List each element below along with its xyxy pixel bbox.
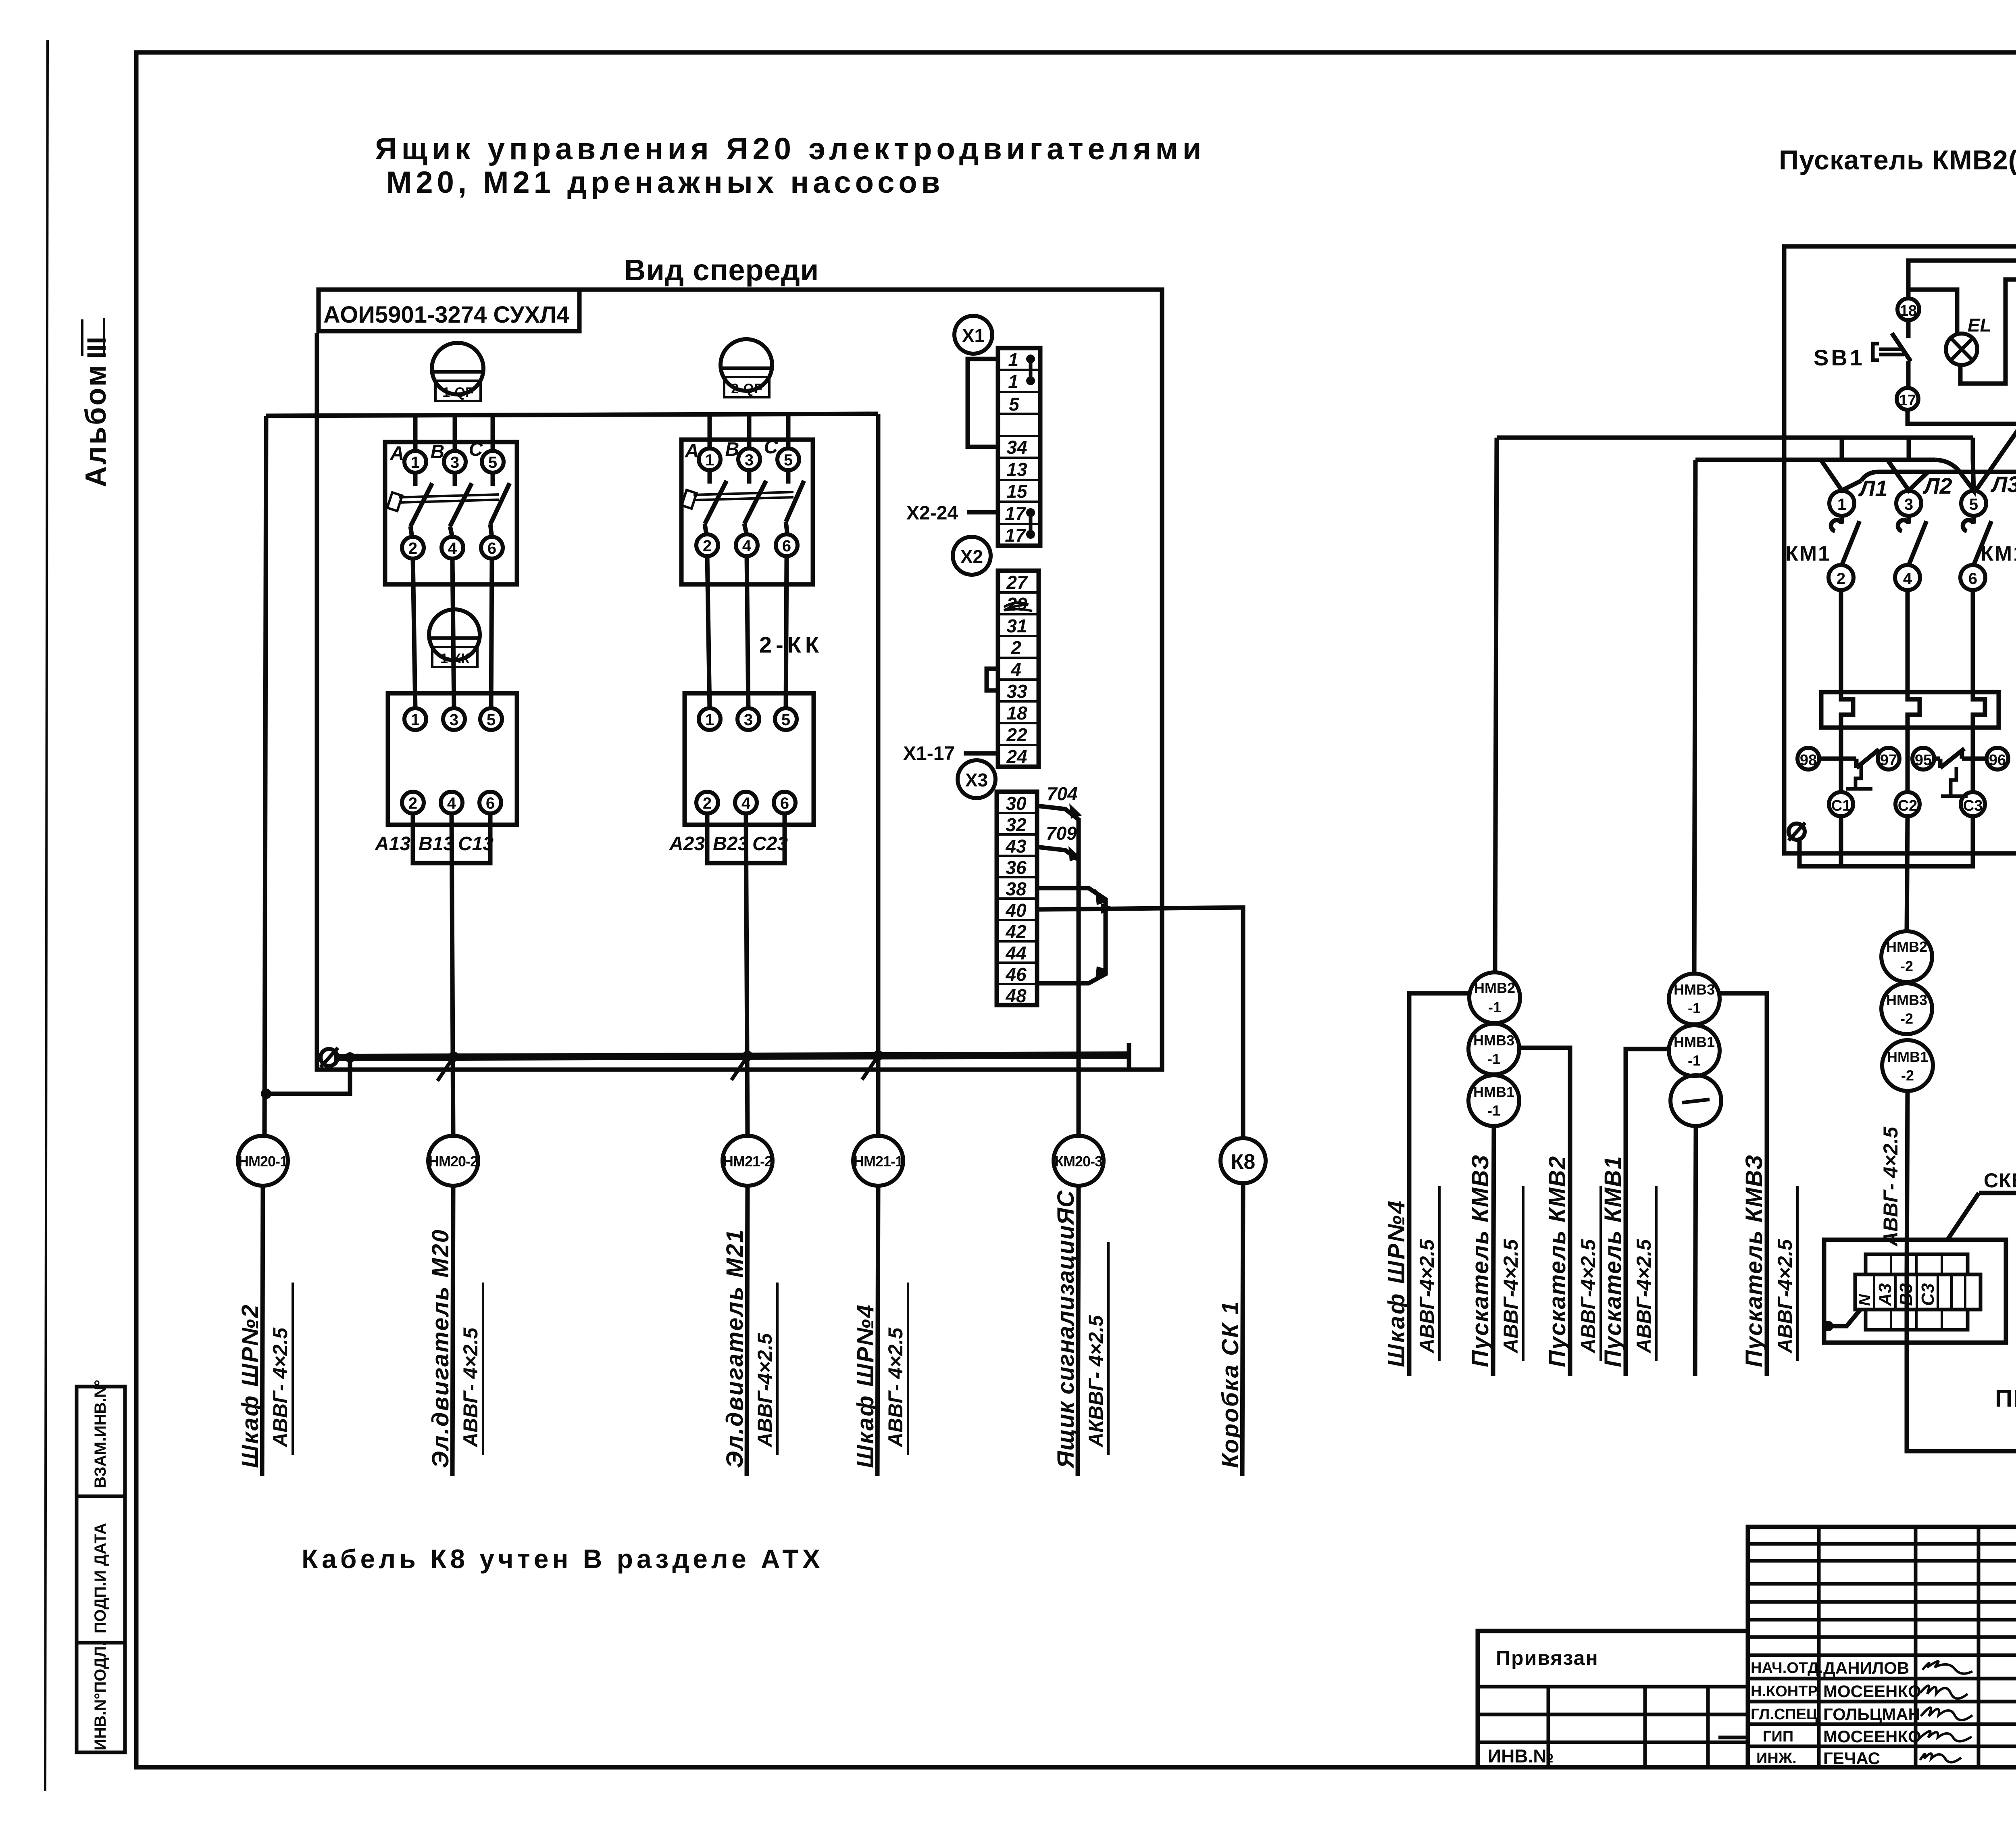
svg-text:НМВ3: НМВ3 — [1886, 992, 1927, 1008]
cable circle НМВ3-2 — [1881, 983, 1932, 1034]
svg-text:-1: -1 — [1488, 999, 1501, 1016]
supply wire Л1 row upper — [1497, 436, 1973, 440]
svg-text:1: 1 — [411, 711, 420, 729]
svg-text:ПОДП.И ДАТА: ПОДП.И ДАТА — [92, 1523, 109, 1633]
wire from X3-40 to К8 — [1037, 907, 1243, 1136]
phase branch V to 1 — [1821, 460, 1861, 490]
svg-text:17: 17 — [1005, 525, 1027, 546]
svg-text:1: 1 — [705, 451, 714, 469]
X1 left link 1 to 34 — [968, 359, 998, 447]
wire НМВ1-2 down to СКВ2 box — [1907, 1091, 1908, 1274]
svg-text:ИНВ.№: ИНВ.№ — [1488, 1746, 1554, 1766]
cable tail НМ21-1 — [877, 1186, 878, 1476]
svg-text:1: 1 — [1008, 349, 1018, 370]
svg-text:38: 38 — [1006, 878, 1027, 899]
PE tap to НМ20-1 — [345, 1052, 355, 1063]
svg-text:40: 40 — [1005, 900, 1027, 921]
svg-text:27: 27 — [1006, 572, 1028, 593]
svg-text:НМВ2: НМВ2 — [1474, 980, 1515, 996]
2-QF linkage crossbar — [694, 492, 793, 495]
svg-text:3: 3 — [744, 711, 753, 729]
stamp outer upper grid — [1748, 1527, 2016, 1767]
svg-text:17: 17 — [1005, 503, 1027, 524]
svg-text:МОСЕЕНКО: МОСЕЕНКО — [1823, 1682, 1921, 1701]
svg-text:-1: -1 — [1487, 1051, 1500, 1067]
svg-text:НМВ1: НМВ1 — [1473, 1084, 1514, 1100]
svg-text:НМ21-2: НМ21-2 — [723, 1153, 772, 1170]
svg-text:А23: А23 — [669, 833, 705, 855]
svg-text:98: 98 — [1800, 752, 1817, 769]
1-QF terminals 2 4 6 — [402, 537, 424, 559]
svg-text:А: А — [685, 440, 699, 462]
2-QF terminals 2 4 6 — [696, 534, 718, 556]
svg-text:5: 5 — [1009, 394, 1020, 415]
cabinet outline (Вид спереди box) — [317, 290, 1162, 1070]
signature squiggles — [1922, 1661, 1972, 1674]
contactor terminals 2 4 6 14 B — [1829, 565, 1854, 590]
PE tap in СКВ2 — [1823, 1321, 1833, 1331]
svg-text:1: 1 — [411, 454, 420, 471]
svg-text:-1: -1 — [1487, 1102, 1500, 1119]
lamp bottom wire — [1960, 279, 2016, 384]
2-QF pole feeds — [708, 414, 712, 449]
terminal 17 — [1897, 388, 1918, 410]
supply drop wire to НМВ3-1 right group — [1694, 460, 1695, 974]
svg-text:-2: -2 — [1900, 1010, 1913, 1027]
svg-text:НМВ2: НМВ2 — [1886, 938, 1927, 955]
X2 left link 4 to 33 — [987, 669, 998, 690]
svg-text:III: III — [81, 337, 111, 359]
svg-text:МОСЕЕНКО: МОСЕЕНКО — [1823, 1727, 1921, 1746]
svg-text:КМ20-3: КМ20-3 — [1055, 1153, 1102, 1170]
wire С2 down to cables — [1907, 816, 1908, 931]
svg-text:АОИ5901-3274 СУХЛ4: АОИ5901-3274 СУХЛ4 — [323, 302, 569, 328]
svg-text:АВВГ- 4×2.5: АВВГ- 4×2.5 — [884, 1327, 907, 1448]
svg-text:3: 3 — [745, 451, 754, 469]
aux contact row — [1797, 748, 1819, 770]
tail НМВ1-1 down — [1493, 1126, 1494, 1376]
svg-text:Ящик сигнализацииЯС: Ящик сигнализацииЯС — [1053, 1190, 1079, 1469]
svg-text:17: 17 — [1899, 392, 1916, 409]
svg-text:Пускатель КМВ2: Пускатель КМВ2 — [1544, 1155, 1570, 1367]
svg-text:42: 42 — [1005, 921, 1027, 942]
branch НМВ1-1(right) to КМВ1 column — [1626, 1049, 1669, 1376]
svg-text:НМ20-1: НМ20-1 — [238, 1153, 288, 1170]
svg-text:Альбом: Альбом — [80, 363, 112, 487]
svg-text:1-QF: 1-QF — [442, 385, 473, 400]
svg-text:НМВ1: НМВ1 — [1674, 1034, 1715, 1050]
svg-text:ГОЛЬЦМАН: ГОЛЬЦМАН — [1823, 1705, 1920, 1724]
svg-text:Коробка СК 1: Коробка СК 1 — [1217, 1300, 1243, 1468]
svg-text:Пускатель КМВ2(КМВ3, КМВ1): Пускатель КМВ2(КМВ3, КМВ1) — [1779, 145, 2016, 175]
svg-text:24: 24 — [1006, 746, 1027, 767]
phase branch V to 5 — [1960, 460, 1974, 490]
svg-text:Привязан: Привязан — [1496, 1647, 1599, 1669]
cable circle НМВ3-1 — [1468, 1024, 1519, 1074]
PE bus (thick) — [334, 1055, 1129, 1057]
cable tail НМ20-1 — [262, 1186, 263, 1476]
svg-text:44: 44 — [1005, 943, 1026, 964]
cable circle НМВ2-2 — [1881, 931, 1932, 982]
svg-text:А13: А13 — [375, 833, 410, 855]
svg-text:6: 6 — [487, 540, 496, 557]
svg-text:К8: К8 — [1231, 1150, 1256, 1174]
terminal strip X2 label circle — [953, 537, 991, 575]
svg-text:34: 34 — [1006, 437, 1027, 458]
svg-text:С: С — [764, 436, 779, 458]
2-КК terminals 1 3 5 — [699, 708, 721, 730]
cable circle НМВ1-2 — [1882, 1040, 1933, 1091]
svg-text:4: 4 — [448, 540, 457, 557]
svg-text:Пускатель КМВЗ: Пускатель КМВЗ — [1741, 1154, 1767, 1367]
contactor terminals 1 3 5 13 A — [1829, 491, 1854, 516]
PE bus end bar — [1127, 1043, 1131, 1068]
svg-text:КМ1: КМ1 — [1785, 542, 1831, 565]
svg-text:5: 5 — [1969, 496, 1978, 513]
svg-text:ИНЖ.: ИНЖ. — [1756, 1750, 1797, 1767]
wires 2-QF to 2-КК — [707, 556, 710, 709]
svg-text:Шкаф ШР№4: Шкаф ШР№4 — [1383, 1199, 1410, 1367]
terminal strip X3 label circle — [958, 760, 996, 798]
wire СКВ2 to ПВ-4 run — [1907, 1240, 2016, 1451]
internal bus wire — [1861, 279, 2016, 481]
type label box АОИ5901-3274 СУХЛ4 — [319, 290, 579, 331]
terminal strip X2 — [998, 571, 1039, 767]
terminal 18 — [1897, 298, 1919, 320]
2-КК output wires merge — [707, 813, 785, 863]
PE junction НМ21-2 — [742, 1051, 753, 1061]
svg-text:2: 2 — [1010, 637, 1021, 658]
supply bus wire — [266, 414, 878, 416]
PE junction НМ21-1 — [873, 1050, 883, 1061]
svg-text:АВВГ-4×2.5: АВВГ-4×2.5 — [1577, 1239, 1599, 1354]
cable tail К8 — [1242, 1183, 1243, 1476]
dash mark — [1718, 1736, 1746, 1739]
svg-text:С2: С2 — [1898, 797, 1918, 814]
1-QF switch blades — [413, 473, 418, 486]
svg-text:18: 18 — [1900, 302, 1917, 319]
svg-text:36: 36 — [1006, 857, 1027, 878]
svg-text:НМВ1: НМВ1 — [1887, 1049, 1928, 1065]
svg-text:2: 2 — [1837, 570, 1845, 588]
svg-text:В13: В13 — [419, 833, 454, 855]
svg-text:АКВВГ- 4×2.5: АКВВГ- 4×2.5 — [1085, 1315, 1107, 1448]
X1 jumper 17-17 — [1026, 508, 1035, 517]
starter enclosure box — [1784, 246, 2016, 853]
svg-text:Пускатель КМВЗ: Пускатель КМВЗ — [1467, 1154, 1493, 1367]
wire 96 diagonal to 5 — [1976, 406, 2016, 490]
spare circle — [1670, 1075, 1721, 1126]
svg-text:SB1: SB1 — [1814, 345, 1865, 370]
svg-text:АВВГ-4×2.5: АВВГ-4×2.5 — [1500, 1239, 1522, 1354]
svg-text:Х2: Х2 — [960, 546, 983, 567]
1-QF lower stubs — [410, 526, 412, 537]
wire drop to НМ21-1 — [876, 414, 881, 1136]
svg-text:НМВ3: НМВ3 — [1674, 981, 1715, 998]
junction box СКВ2 — [1824, 1240, 2006, 1343]
svg-text:Шкаф ШР№2: Шкаф ШР№2 — [237, 1303, 263, 1468]
spare tail down — [1695, 1126, 1696, 1376]
svg-text:ВЗАМ.ИНВ.N°: ВЗАМ.ИНВ.N° — [92, 1380, 109, 1488]
svg-text:4: 4 — [447, 795, 456, 812]
sheet edge line left — [45, 40, 48, 1791]
svg-text:А3: А3 — [1875, 1283, 1895, 1306]
lamp branch wire — [1910, 290, 1957, 334]
svg-text:Л2: Л2 — [1922, 473, 1952, 498]
branch НМВ3-1 to КМВ2 column — [1519, 1048, 1570, 1376]
cable circle НМ21-1 — [853, 1136, 903, 1186]
svg-text:2-QF: 2-QF — [731, 381, 762, 396]
svg-text:1: 1 — [705, 711, 714, 729]
svg-text:43: 43 — [1005, 836, 1027, 857]
2-QF lower stubs — [705, 524, 706, 535]
svg-text:Н.КОНТР.: Н.КОНТР. — [1751, 1683, 1820, 1700]
svg-text:КМ1: КМ1 — [1981, 542, 2016, 565]
svg-text:5: 5 — [488, 454, 497, 471]
2-QF breaker box — [681, 440, 813, 584]
cable circle НМВ3-1 right — [1669, 974, 1720, 1024]
1-КК relay box — [388, 693, 517, 825]
svg-text:АВВГ- 4×2.5: АВВГ- 4×2.5 — [459, 1327, 482, 1448]
svg-text:2: 2 — [703, 537, 712, 555]
svg-text:-2: -2 — [1901, 1067, 1914, 1084]
cable tail НМ21-2 — [747, 1186, 748, 1476]
margin stamp boxes — [77, 1387, 125, 1496]
cable circle НМ20-2 — [428, 1136, 478, 1186]
X1 jumper 1-1 — [1026, 355, 1035, 363]
PE symbol on box — [1789, 824, 1805, 840]
svg-text:АВВГ-4×2.5: АВВГ-4×2.5 — [1633, 1239, 1655, 1354]
svg-text:97: 97 — [1880, 752, 1897, 769]
branch to ШР№4 column — [1409, 993, 1469, 1376]
svg-text:АВВГ-4×2.5: АВВГ-4×2.5 — [1774, 1239, 1796, 1354]
cable circle НМВ1-1 right — [1669, 1025, 1720, 1076]
breaker symbol 2-QF — [721, 339, 772, 391]
svg-text:С1: С1 — [1831, 797, 1851, 814]
svg-text:1: 1 — [1008, 371, 1018, 392]
1-КК output wires merge — [413, 813, 490, 863]
svg-text:В23: В23 — [713, 833, 748, 855]
svg-text:2-КК: 2-КК — [759, 632, 823, 657]
svg-text:НАЧ.ОТД.: НАЧ.ОТД. — [1751, 1660, 1823, 1677]
svg-text:96: 96 — [1989, 752, 2006, 769]
svg-text:АВВГ- 4×2.5: АВВГ- 4×2.5 — [269, 1327, 292, 1448]
svg-text:6: 6 — [782, 537, 791, 555]
svg-text:НМ20-2: НМ20-2 — [429, 1153, 478, 1170]
svg-text:4: 4 — [742, 537, 752, 555]
svg-text:48: 48 — [1005, 985, 1027, 1006]
control loop top wire — [1908, 261, 2016, 628]
svg-text:Кабель К8 учтен В разделе А: Кабель К8 учтен В разделе АТХ — [302, 1544, 824, 1574]
svg-text:4: 4 — [741, 795, 751, 812]
svg-text:Эл.двигатель М20: Эл.двигатель М20 — [427, 1228, 454, 1468]
svg-text:АВВГ-4×2.5: АВВГ-4×2.5 — [1416, 1239, 1438, 1354]
1-QF breaker box — [385, 442, 517, 584]
aux contact 95-96 — [1934, 757, 1940, 761]
svg-text:13: 13 — [1006, 459, 1027, 480]
wire through box — [1905, 1274, 1909, 1343]
svg-text:С3: С3 — [1963, 797, 1983, 814]
svg-text:5: 5 — [487, 711, 496, 729]
svg-text:3: 3 — [450, 711, 458, 729]
svg-text:Ящик управления Я20 электро: Ящик управления Я20 электродвигателями — [375, 132, 1206, 166]
1-QF terminals 1 3 5 — [404, 451, 426, 473]
overline/underline of III — [81, 319, 83, 356]
svg-text:Х1-17: Х1-17 — [903, 743, 955, 764]
svg-text:N: N — [1856, 1294, 1874, 1306]
svg-text:ГИП: ГИП — [1763, 1728, 1793, 1745]
svg-text:АВВГ- 4×2.5: АВВГ- 4×2.5 — [1879, 1126, 1902, 1247]
svg-text:ЕL: ЕL — [1968, 315, 1991, 336]
cable circle НМ20-1 — [238, 1136, 288, 1186]
svg-text:Х2-24: Х2-24 — [906, 503, 958, 524]
wire 17 to 13 — [1908, 410, 2016, 490]
svg-text:6: 6 — [780, 795, 789, 812]
svg-text:АВВГ-4×2.5: АВВГ-4×2.5 — [754, 1333, 776, 1448]
1-КК terminals 1 3 5 — [404, 708, 426, 730]
jumper X3-38/46 bracket — [1037, 888, 1106, 983]
cable tail КМ20-3 — [1078, 1186, 1079, 1476]
svg-text:С3: С3 — [1918, 1283, 1938, 1306]
svg-text:2: 2 — [703, 795, 712, 812]
svg-text:32: 32 — [1006, 814, 1027, 835]
svg-text:М20, М21 дренажных насосов: М20, М21 дренажных насосов — [386, 165, 944, 200]
svg-text:1: 1 — [1837, 496, 1846, 513]
aux contact 98-97 — [1819, 757, 1856, 761]
svg-text:-2: -2 — [1900, 958, 1913, 974]
svg-text:704: 704 — [1047, 783, 1078, 804]
svg-text:Л3: Л3 — [1990, 471, 2016, 497]
svg-text:3: 3 — [450, 454, 459, 471]
svg-text:Эл.двигатель М21: Эл.двигатель М21 — [722, 1228, 748, 1468]
terminals С1 С2 С3 — [1829, 792, 1853, 816]
cable tail НМ20-2 — [452, 1186, 453, 1476]
svg-text:Х1: Х1 — [962, 325, 985, 346]
supply drop wire to НМВ2-1 — [1495, 438, 1497, 972]
terminal block in СКВ2 — [1855, 1274, 1981, 1310]
svg-text:6: 6 — [486, 795, 495, 812]
breaker symbol 1-QF — [432, 343, 483, 394]
svg-text:Л1: Л1 — [1858, 475, 1888, 501]
svg-text:15: 15 — [1006, 481, 1028, 502]
svg-text:-1: -1 — [1688, 1000, 1701, 1016]
2-КК terminals 2 4 6 — [696, 792, 718, 813]
svg-text:Пускатель КМВ1: Пускатель КМВ1 — [1600, 1155, 1626, 1367]
cable circle К8 — [1220, 1138, 1266, 1183]
cable circle НМ21-2 — [723, 1136, 773, 1186]
wires 1-QF to 1-КК — [413, 559, 415, 709]
svg-text:Х3: Х3 — [965, 770, 988, 790]
PE bonding below box — [1799, 816, 1973, 866]
svg-text:3: 3 — [1904, 496, 1913, 513]
svg-text:18: 18 — [1006, 703, 1027, 724]
svg-text:ДАНИЛОВ: ДАНИЛОВ — [1823, 1658, 1909, 1677]
X2 scribble on 29 — [1004, 603, 1032, 611]
svg-text:31: 31 — [1006, 615, 1027, 636]
PE junction НМ20-2 — [448, 1051, 459, 1062]
svg-text:НМВ3: НМВ3 — [1473, 1032, 1514, 1049]
svg-text:А: А — [390, 443, 404, 464]
svg-text:2: 2 — [408, 540, 417, 557]
svg-text:4: 4 — [1010, 659, 1021, 680]
wire drop to НМ20-1 — [264, 416, 266, 1136]
2-QF terminals 1 3 5 — [699, 448, 721, 470]
2-КК relay box — [685, 693, 814, 825]
svg-text:46: 46 — [1005, 964, 1027, 985]
svg-text:СКВ2(СКВ3,СКВ1): СКВ2(СКВ3,СКВ1) — [1984, 1169, 2016, 1192]
svg-text:Шкаф ШР№4: Шкаф ШР№4 — [852, 1303, 879, 1468]
svg-text:Вид спереди: Вид спереди — [624, 253, 819, 287]
svg-text:22: 22 — [1006, 724, 1027, 745]
thermal relay symbol 1-КК — [429, 609, 480, 660]
terminal strip X1 label circle — [954, 316, 992, 354]
supply wire Л2 row lower — [1695, 458, 1935, 462]
thermal heater block — [1821, 692, 1999, 728]
2-QF switch blades — [708, 470, 712, 484]
1-QF pole feeds — [413, 416, 418, 451]
binding left part — [1478, 1631, 1748, 1767]
cable circle НМВ2-1 — [1469, 972, 1520, 1023]
svg-text:5: 5 — [784, 451, 793, 469]
svg-text:ГЕЧАС: ГЕЧАС — [1823, 1749, 1880, 1768]
svg-text:709: 709 — [1046, 823, 1077, 844]
svg-text:4: 4 — [1903, 570, 1912, 588]
lamp EL — [1946, 334, 1977, 365]
svg-text:ПВ-4(1•1): ПВ-4(1•1) — [1995, 1385, 2016, 1412]
phase branch V to 3 — [1887, 460, 1928, 490]
power wires down — [1839, 590, 1843, 699]
main contacts КМ1 — [1831, 516, 1842, 531]
cable circle НМВ1-1 — [1468, 1075, 1519, 1126]
svg-text:95: 95 — [1915, 752, 1932, 769]
svg-text:-1: -1 — [1688, 1052, 1701, 1069]
svg-text:ГЛ.СПЕЦ.: ГЛ.СПЕЦ. — [1751, 1706, 1822, 1723]
branch НМВ3-1 right to КМВ3 column — [1720, 993, 1767, 1376]
svg-text:6: 6 — [1968, 570, 1977, 588]
1-КК terminals 2 4 6 — [402, 792, 424, 813]
svg-text:ИНВ.N°ПОДЛ.: ИНВ.N°ПОДЛ. — [92, 1641, 109, 1750]
cable circle КМ20-3 — [1054, 1136, 1104, 1186]
terminal strip X1 — [998, 348, 1040, 546]
svg-text:НМ21-1: НМ21-1 — [854, 1153, 903, 1170]
svg-text:33: 33 — [1006, 681, 1027, 702]
1-QF linkage crossbar — [399, 494, 499, 497]
svg-text:2: 2 — [408, 795, 417, 812]
PE symbol Ø — [321, 1049, 337, 1066]
svg-text:30: 30 — [1006, 793, 1027, 814]
terminal strip X3 — [997, 792, 1037, 1005]
svg-text:5: 5 — [781, 711, 790, 729]
